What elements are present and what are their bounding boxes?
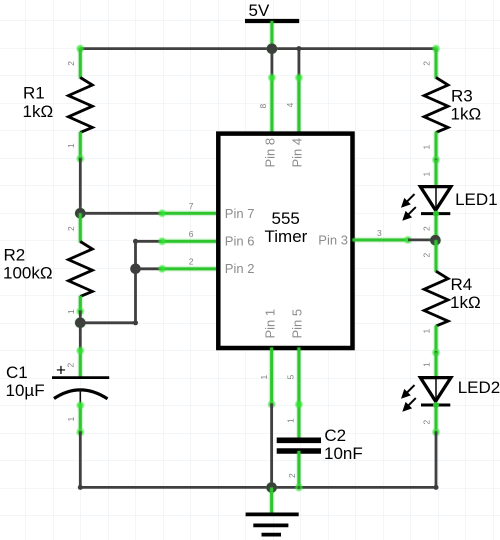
svg-text:7: 7 xyxy=(189,201,194,211)
wire 5V stub xyxy=(270,21,273,49)
svg-text:1: 1 xyxy=(422,172,432,177)
svg-text:10nF: 10nF xyxy=(324,444,363,463)
resistor R2 xyxy=(68,213,92,316)
svg-text:R3: R3 xyxy=(451,87,473,106)
node bend bottom-left xyxy=(78,485,83,490)
svg-text:+: + xyxy=(56,361,66,380)
svg-text:2: 2 xyxy=(422,226,432,231)
svg-text:R2: R2 xyxy=(4,246,26,265)
LED1 arrows xyxy=(401,194,416,221)
svg-text:2: 2 xyxy=(189,257,194,267)
svg-text:2: 2 xyxy=(422,61,432,66)
svg-text:8: 8 xyxy=(258,104,268,109)
wire R1 to junction xyxy=(79,159,82,214)
label R4 xyxy=(450,275,481,312)
capacitor C1 xyxy=(52,323,109,437)
node top-right corner xyxy=(431,44,440,53)
wire pin6 xyxy=(136,237,219,246)
svg-text:LED2: LED2 xyxy=(458,378,500,397)
svg-text:100kΩ: 100kΩ xyxy=(3,264,53,283)
svg-text:5V: 5V xyxy=(249,1,270,20)
IC U1 555 timer body xyxy=(218,134,352,348)
svg-text:Pin 2: Pin 2 xyxy=(225,261,255,276)
wire feedback horizontal xyxy=(80,321,135,324)
svg-text:Pin 6: Pin 6 xyxy=(225,234,255,249)
svg-text:1kΩ: 1kΩ xyxy=(450,293,481,312)
wire pin2 xyxy=(136,264,219,273)
svg-text:6: 6 xyxy=(189,229,194,239)
wire top rail xyxy=(80,47,436,50)
svg-text:1: 1 xyxy=(422,329,432,334)
resistor R4 xyxy=(424,240,448,357)
wire pin8 column xyxy=(267,49,276,134)
wire pin7 xyxy=(80,209,218,218)
label C1 xyxy=(6,363,45,400)
node top-left corner xyxy=(76,44,85,53)
junction node R2/C1/feedback xyxy=(74,316,87,329)
svg-text:2: 2 xyxy=(66,61,76,66)
svg-text:2: 2 xyxy=(422,253,432,258)
node bend pin6 xyxy=(133,239,138,244)
node bend pin4 top xyxy=(296,46,301,51)
capacitor C2 xyxy=(277,440,321,492)
svg-text:10µF: 10µF xyxy=(6,381,45,400)
wire pin5 column xyxy=(294,348,303,438)
node bend bottom-right xyxy=(434,485,439,490)
svg-text:R1: R1 xyxy=(23,84,45,103)
svg-text:5: 5 xyxy=(286,375,296,380)
wire C1 to bottom rail xyxy=(79,432,82,487)
junction node R1/R2/pin7 xyxy=(74,207,87,220)
svg-text:555: 555 xyxy=(272,209,300,228)
label R2 xyxy=(3,246,53,283)
svg-text:2: 2 xyxy=(422,420,432,425)
svg-text:4: 4 xyxy=(285,103,295,108)
svg-text:Pin 5: Pin 5 xyxy=(289,309,304,339)
junction node ground xyxy=(265,481,278,494)
svg-text:2: 2 xyxy=(287,473,297,478)
wire LED2 to bottom rail xyxy=(435,432,438,487)
svg-text:C2: C2 xyxy=(324,426,346,445)
svg-text:R4: R4 xyxy=(451,275,473,294)
svg-text:LED1: LED1 xyxy=(455,190,498,209)
svg-text:Pin 4: Pin 4 xyxy=(289,138,304,168)
svg-text:1: 1 xyxy=(422,362,432,367)
svg-text:1kΩ: 1kΩ xyxy=(23,102,54,121)
svg-text:2: 2 xyxy=(66,363,76,368)
svg-text:Pin 3: Pin 3 xyxy=(318,233,348,248)
junction node pin2 xyxy=(130,264,141,275)
resistor R3 xyxy=(424,49,448,165)
svg-text:Pin 8: Pin 8 xyxy=(262,138,277,168)
svg-text:1: 1 xyxy=(66,417,76,422)
svg-text:C1: C1 xyxy=(6,363,28,382)
power symbol 5V xyxy=(245,1,299,21)
svg-text:1: 1 xyxy=(259,375,269,380)
svg-text:1kΩ: 1kΩ xyxy=(451,105,482,124)
svg-text:Pin 1: Pin 1 xyxy=(262,309,277,339)
LED2 arrows xyxy=(401,385,416,412)
wire R2 to junction2 xyxy=(79,312,82,323)
ground symbol xyxy=(246,488,299,535)
svg-text:1: 1 xyxy=(66,143,76,148)
svg-text:1: 1 xyxy=(422,145,432,150)
wire pin1 column xyxy=(267,348,276,488)
resistor R1 xyxy=(68,49,92,164)
svg-text:Timer: Timer xyxy=(265,227,308,246)
node bend feedback xyxy=(133,320,138,325)
LED1 xyxy=(401,160,451,240)
svg-text:2: 2 xyxy=(66,226,76,231)
svg-text:Pin 7: Pin 7 xyxy=(225,206,255,221)
svg-text:3: 3 xyxy=(377,228,382,238)
wire pin3 xyxy=(353,235,436,244)
label R3 xyxy=(451,87,482,124)
wire bottom rail xyxy=(80,486,436,489)
label R1 xyxy=(23,84,54,122)
svg-text:1: 1 xyxy=(66,309,76,314)
svg-text:1: 1 xyxy=(286,418,296,423)
junction top rail / pin8 xyxy=(266,43,278,55)
wire feedback vertical xyxy=(134,241,137,322)
LED2 xyxy=(401,353,451,437)
label C2 xyxy=(324,426,363,463)
wire pin4 column xyxy=(294,49,303,134)
junction node pin3/LED1/R4 xyxy=(429,234,442,247)
